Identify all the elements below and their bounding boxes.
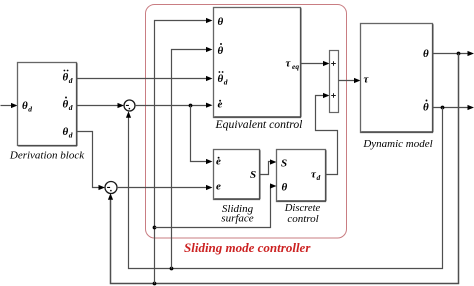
wire: S from sliding surface to discrete control [260, 162, 272, 175]
port label theta_d (output 3) [63, 126, 73, 139]
wire: theta_d down to sum2 [77, 132, 100, 188]
svg-text:θ: θ [218, 16, 224, 28]
wire: tau_eq to sum rect [301, 63, 325, 65]
svg-text:d: d [224, 77, 228, 86]
svg-text:θ: θ [63, 126, 69, 138]
wire: theta_dot branch up to equivalent control [172, 50, 208, 269]
svg-text:θ: θ [218, 73, 224, 85]
svg-text:S: S [250, 169, 256, 181]
svg-text:e: e [216, 181, 221, 193]
svg-text:d: d [69, 76, 73, 85]
svg-text:control: control [287, 213, 318, 225]
svg-text:θ: θ [218, 45, 224, 57]
svg-text:d: d [28, 104, 32, 113]
sum junction 2 (circle) [105, 182, 117, 194]
block: Derivation block [18, 63, 78, 146]
block: Dynamic model [361, 24, 434, 133]
svg-text:S: S [281, 158, 287, 170]
junction dot theta branch [457, 52, 461, 56]
svg-text:θ: θ [282, 182, 288, 194]
wire: theta_dd_d to equivalent control [77, 78, 208, 80]
wire: input theta_d reference [1, 105, 13, 107]
svg-text:θ: θ [423, 48, 429, 60]
wire: theta_dot output to right edge [433, 107, 469, 109]
svg-text:Equivalent control: Equivalent control [215, 118, 303, 131]
wire: e from sum2 to sliding surface [117, 187, 208, 189]
wire: theta feedback (outer loop) [111, 54, 459, 284]
wire: theta_dot_d to sum1 [77, 105, 119, 107]
port label theta_dot (input 2) [218, 43, 224, 57]
svg-text:d: d [69, 130, 73, 139]
port label theta_dd_d (output 1) [63, 70, 73, 85]
wire: theta_dot feedback (inner loop) [129, 108, 443, 269]
junction dot theta to discrete control branch [153, 226, 157, 230]
svg-text:θ: θ [22, 100, 28, 112]
block: Sliding surface [214, 150, 261, 200]
port label theta_dd_d (input 3) [218, 71, 228, 86]
wire: tau to dynamic model [339, 80, 356, 82]
svg-text:d: d [317, 173, 321, 182]
port label tau_eq (output) [286, 58, 300, 72]
svg-text:Derivation block: Derivation block [9, 150, 85, 162]
wire: theta output to right edge [433, 53, 469, 55]
port label theta_dot (output 2) [423, 100, 429, 114]
port label e_dot (input 4) [218, 99, 223, 111]
junction dot on e_dot wire [189, 104, 193, 108]
block: sum (vertical rectangle) [330, 51, 339, 113]
wire: theta branch to discrete control [155, 186, 272, 228]
wire: theta branch up to equivalent control [155, 21, 208, 284]
wire: tau_d feedback up to sum rect [316, 96, 338, 175]
block: Equivalent control [214, 8, 302, 118]
svg-text:θ: θ [423, 102, 429, 114]
arrow into derivation block [11, 103, 18, 108]
port label tau_d (output) [311, 169, 321, 183]
svg-text:eq: eq [292, 62, 299, 71]
port label theta_dot_d (output 2) [63, 97, 73, 112]
svg-text:Sliding mode controller: Sliding mode controller [184, 240, 311, 255]
svg-text:surface: surface [221, 212, 254, 224]
wire: e_dot branch down to sliding surface [191, 106, 208, 162]
wire: e_dot from sum1 to equivalent control [135, 105, 208, 107]
block: Discrete control [277, 150, 327, 202]
port label e_dot (input 1) [216, 156, 221, 168]
port label theta_d (input of derivation block) [22, 100, 32, 113]
sliding mode controller boundary (red rounded box) [146, 5, 347, 239]
svg-text:θ: θ [63, 99, 69, 111]
sum junction 1 (circle) [124, 100, 135, 111]
junction dot theta_dot branch [441, 106, 445, 110]
svg-text:Dynamic model: Dynamic model [362, 138, 432, 150]
svg-text:θ: θ [63, 72, 69, 84]
svg-text:d: d [69, 103, 73, 112]
junction dot theta_dot to eq-control branch [170, 267, 174, 271]
junction dot theta to eq-control branch [153, 282, 157, 286]
